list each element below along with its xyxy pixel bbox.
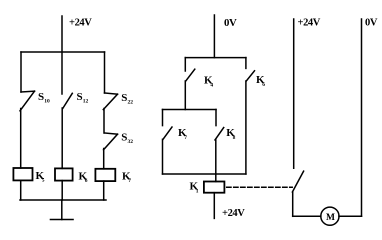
contact K8 — [215, 127, 236, 141]
svg-text:7: 7 — [128, 178, 131, 184]
wire: S12 to coil K6 — [61, 108, 63, 168]
contact K1 (motor switch, right circuit) — [292, 171, 303, 192]
svg-text:0V: 0V — [224, 17, 237, 29]
svg-text:10: 10 — [44, 99, 50, 105]
wire: coil K1 to +24V — [213, 193, 215, 219]
relay coil K7 — [95, 169, 131, 184]
motor M — [321, 207, 339, 225]
relay coil K6 — [55, 168, 88, 183]
wire: ground stem — [61, 200, 63, 220]
wire: coil K7 to bottom rail — [103, 181, 105, 200]
wire: S32 to coil K7 — [103, 149, 105, 169]
wire: top bus of middle circuit — [185, 57, 246, 59]
svg-text:S: S — [121, 132, 127, 144]
wire: 0V lead down right side — [361, 19, 363, 216]
wire: bottom rail of left circuit — [20, 199, 106, 201]
relay coil K1 — [190, 181, 225, 195]
svg-text:0V: 0V — [365, 18, 378, 29]
0V supply label (middle circuit) — [224, 17, 237, 29]
wire: coil K5 to bottom rail — [20, 180, 22, 200]
wire: bottom rail right of motor — [339, 215, 362, 217]
wire: K7 branch down to third bus — [162, 139, 164, 174]
svg-text:7: 7 — [184, 135, 187, 141]
wire: right branch drop to contact K6 — [245, 58, 247, 69]
svg-text:S: S — [121, 92, 127, 104]
wire: K4 to second bus — [184, 81, 186, 110]
wire: S10 to coil K5 — [20, 109, 22, 169]
relay coil K5 — [13, 168, 44, 184]
+24V supply label (left circuit) — [69, 18, 92, 29]
wire: +24V supply lead down to bus (left circuit), continues as S12 branch — [61, 16, 63, 94]
svg-text:5: 5 — [42, 178, 45, 184]
wire: 0V lead down to top bus (middle circuit) — [213, 15, 215, 58]
wire: right branch drop to S22 — [104, 52, 106, 93]
wire: bottom rail left of motor — [293, 215, 321, 217]
dashed mechanical link from coil K1 to motor switch — [227, 186, 293, 188]
wire: second bus of middle circuit — [163, 109, 217, 111]
wire: left branch drop to S10 — [20, 52, 22, 92]
ground — [51, 219, 74, 221]
contact K6 (middle circuit) — [246, 71, 265, 88]
svg-text:S: S — [77, 91, 83, 103]
+24V label (middle circuit bottom) — [222, 208, 245, 219]
switch S12 — [63, 91, 89, 108]
wire: drop to contact K8 — [215, 110, 217, 126]
wire: K8 branch down through third bus to coil K1 — [215, 140, 217, 182]
0V supply label (right circuit) — [365, 18, 378, 29]
wire: drop to contact K7 — [162, 110, 164, 126]
svg-text:12: 12 — [83, 99, 89, 105]
svg-text:+24V: +24V — [69, 18, 92, 29]
svg-text:6: 6 — [262, 82, 265, 88]
svg-text:+24V: +24V — [222, 208, 245, 219]
svg-text:8: 8 — [233, 135, 236, 141]
svg-text:M: M — [326, 213, 335, 223]
contact K7 (middle circuit) — [163, 127, 187, 141]
wire: top bus of left circuit — [21, 51, 105, 53]
wire: K6 branch down to third bus — [245, 81, 247, 174]
svg-text:32: 32 — [128, 139, 134, 145]
switch S32 — [104, 132, 134, 150]
svg-text:4: 4 — [210, 82, 213, 88]
svg-text:6: 6 — [85, 178, 88, 184]
switch S10 — [20, 91, 50, 111]
wire: left branch drop to contact K4 — [184, 58, 186, 71]
wire: S22 to S32 — [103, 109, 105, 134]
contact K4 — [186, 69, 214, 88]
svg-text:+24V: +24V — [298, 18, 321, 29]
svg-text:22: 22 — [128, 100, 134, 106]
wire: contact to bottom rail — [292, 192, 294, 216]
wire: coil K6 to bottom rail — [61, 181, 63, 200]
svg-text:1: 1 — [196, 188, 199, 194]
wire: +24V lead down to K1 contact (right circuit) — [293, 19, 295, 168]
switch S22 — [103, 92, 133, 110]
+24V supply label (right circuit) — [298, 18, 321, 29]
wire: third bus of middle circuit — [163, 173, 246, 175]
